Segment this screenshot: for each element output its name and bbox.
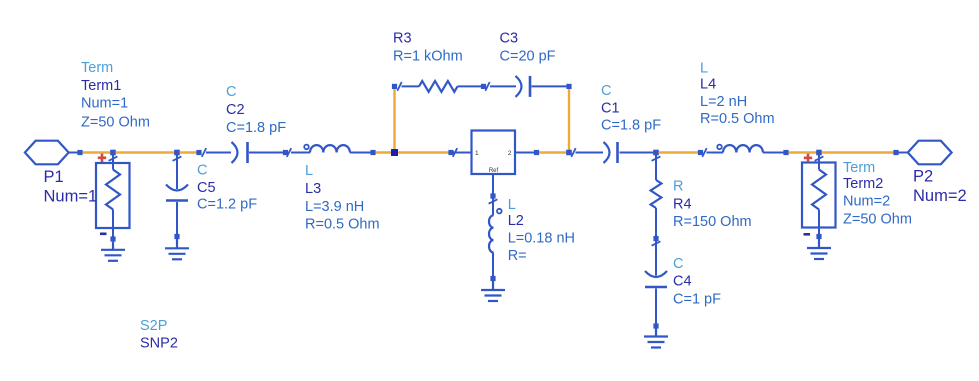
- ground C5: [165, 239, 189, 259]
- label C2: [226, 84, 286, 136]
- node C5 tap: [174, 150, 180, 156]
- svg-text:C=20 pF: C=20 pF: [500, 49, 556, 65]
- svg-text:R: R: [673, 179, 683, 195]
- wire feedback right vertical (orange): [568, 89, 570, 150]
- svg-text:C: C: [601, 83, 611, 99]
- label C1: [601, 83, 661, 134]
- capacitor C4: [645, 241, 667, 329]
- label R4: [673, 179, 752, 230]
- svg-text:L=0.18 nH: L=0.18 nH: [508, 231, 575, 247]
- svg-text:C3: C3: [500, 31, 519, 47]
- svg-text:P2: P2: [913, 168, 933, 186]
- inductor L3: [291, 145, 376, 156]
- svg-text:Num=1: Num=1: [81, 96, 128, 112]
- svg-text:C=1 pF: C=1 pF: [673, 291, 721, 307]
- label C5: [197, 163, 257, 213]
- ground Term2: [807, 239, 831, 259]
- label SNP2 component: [140, 318, 178, 352]
- wire Term1 node to C5 node (orange): [116, 151, 175, 153]
- wire feedback node to S2P pin 1 (orange): [398, 148, 457, 157]
- node Term1 tap: [110, 150, 116, 156]
- svg-text:R=: R=: [508, 248, 527, 264]
- capacitor C2: [202, 142, 291, 163]
- label C4: [673, 256, 721, 307]
- wire Term2 node to P2 (orange): [822, 150, 899, 155]
- svg-text:C=1.8 pF: C=1.8 pF: [601, 118, 661, 134]
- label L3: [305, 163, 380, 233]
- label P2: [913, 168, 967, 205]
- svg-text:C2: C2: [226, 102, 245, 118]
- terminal Term1: [96, 154, 130, 242]
- wire L4 to Term2 node (orange): [789, 151, 817, 153]
- svg-text:C4: C4: [673, 274, 692, 290]
- svg-text:Num=2: Num=2: [913, 187, 967, 205]
- label R3: [393, 31, 463, 65]
- svg-text:R3: R3: [393, 31, 412, 47]
- svg-text:R=0.5 Ohm: R=0.5 Ohm: [700, 111, 775, 127]
- svg-text:C: C: [673, 256, 683, 272]
- wire P1 to Term1 node (orange): [83, 151, 111, 153]
- svg-text:C=1.8 pF: C=1.8 pF: [226, 120, 286, 136]
- svg-text:R=150 Ohm: R=150 Ohm: [673, 214, 752, 230]
- node feedback left junction: [391, 149, 398, 156]
- svg-text:R=1 kOhm: R=1 kOhm: [393, 49, 463, 65]
- capacitor C1: [576, 142, 654, 163]
- svg-text:SNP2: SNP2: [140, 336, 178, 352]
- svg-text:C: C: [197, 163, 207, 179]
- svg-text:L=3.9 nH: L=3.9 nH: [305, 199, 364, 215]
- label L4: [700, 60, 775, 127]
- svg-text:Term: Term: [81, 60, 113, 76]
- svg-text:Num=1: Num=1: [44, 188, 98, 206]
- svg-text:P1: P1: [44, 168, 64, 186]
- resistor R3: [392, 81, 490, 92]
- resistor R4: [651, 155, 662, 246]
- wire C5 node to C2 pin 1 (orange): [180, 150, 202, 155]
- capacitor C5: [166, 155, 188, 239]
- label C3: [500, 31, 556, 65]
- inductor L2: [489, 199, 502, 282]
- svg-text:Ref: Ref: [489, 168, 499, 174]
- svg-text:Z=50 Ohm: Z=50 Ohm: [843, 212, 912, 228]
- svg-text:L3: L3: [305, 181, 321, 197]
- wire R4 node to L4 pin 1 (orange): [659, 148, 707, 157]
- svg-text:R4: R4: [673, 196, 692, 212]
- svg-text:L: L: [508, 197, 516, 213]
- ground Term1: [101, 242, 125, 261]
- ground C4: [644, 329, 668, 348]
- svg-text:R=0.5 Ohm: R=0.5 Ohm: [305, 217, 380, 233]
- wire L3 to feedback node (orange): [376, 151, 393, 153]
- inductor L4: [707, 145, 789, 156]
- pin S2P ref: [489, 174, 498, 204]
- node R4 tap: [653, 150, 659, 156]
- node C1 / feedback right tap: [566, 148, 576, 157]
- svg-text:L2: L2: [508, 213, 524, 229]
- svg-text:L4: L4: [700, 77, 716, 93]
- svg-text:L: L: [700, 60, 708, 76]
- svg-text:C5: C5: [197, 180, 216, 196]
- svg-text:1: 1: [475, 150, 479, 157]
- svg-text:Term: Term: [843, 160, 875, 176]
- port P1: [25, 141, 83, 165]
- label L2: [508, 197, 575, 264]
- label Term1: [81, 60, 150, 130]
- capacitor C3: [490, 76, 572, 97]
- svg-text:C=1.2 pF: C=1.2 pF: [197, 197, 257, 213]
- svg-text:S2P: S2P: [140, 318, 167, 334]
- svg-text:2: 2: [508, 150, 512, 157]
- wire feedback left vertical (orange): [393, 89, 395, 149]
- label P1: [44, 168, 98, 206]
- node Term2 tap: [816, 150, 822, 156]
- svg-text:C: C: [226, 84, 236, 100]
- svg-text:C1: C1: [601, 101, 620, 117]
- s-parameter block SNP2: [454, 131, 540, 175]
- wire S2P pin 2 to C1 (orange): [539, 151, 567, 153]
- svg-text:L: L: [305, 163, 313, 179]
- svg-text:L=2 nH: L=2 nH: [700, 94, 747, 110]
- port P2: [899, 141, 952, 165]
- svg-text:Z=50 Ohm: Z=50 Ohm: [81, 114, 150, 130]
- label Term2: [843, 160, 912, 228]
- ground L2: [481, 281, 505, 301]
- svg-text:Term1: Term1: [81, 78, 121, 94]
- svg-text:Num=2: Num=2: [843, 194, 890, 210]
- svg-text:Term2: Term2: [843, 176, 883, 192]
- terminal Term2: [802, 154, 836, 239]
